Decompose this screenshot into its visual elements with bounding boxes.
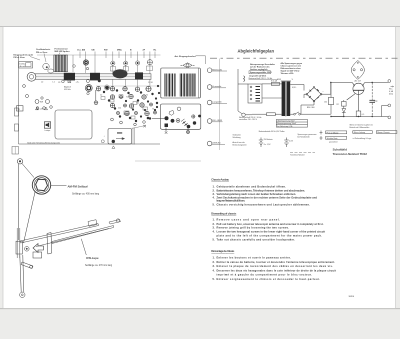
svg-text:Langwelle: Langwelle <box>212 102 222 104</box>
svg-text:Ant. Eingangsbuchse: Ant. Eingangsbuchse <box>175 55 197 58</box>
svg-text:T3: T3 <box>152 109 154 111</box>
svg-text:4.: 4. <box>213 230 215 234</box>
svg-text:2.: 2. <box>213 260 215 264</box>
svg-text:1.: 1. <box>213 185 215 189</box>
arrow marker <box>244 76 245 82</box>
svg-text:Lautspr.: Lautspr. <box>45 129 52 132</box>
bottom rail right <box>331 116 388 118</box>
svg-text:AM-FM Seillauf: AM-FM Seillauf <box>68 184 88 188</box>
TO-3 package outline <box>351 61 364 80</box>
svg-text:Remove cases and open rear pan: Remove cases and open rear panel. <box>217 218 281 222</box>
svg-text:MW-LW Spulen: MW-LW Spulen <box>55 51 71 53</box>
tuning box (Drehko) <box>19 62 33 69</box>
svg-text:Take out chassis carefully and: Take out chassis carefully and unsolder … <box>217 237 296 241</box>
idler pulley <box>17 159 22 164</box>
svg-text:imprimé et à gauche du compart: imprimé et à gauche du compartiment pour… <box>217 273 313 277</box>
dashed separation line <box>210 57 398 59</box>
output terminal - <box>382 104 391 119</box>
dial lamp (eye) <box>181 63 195 68</box>
dial scale window frame <box>161 68 201 98</box>
measurement note box <box>276 120 307 128</box>
coil L1 on rod <box>64 73 75 81</box>
capacitor C1 <box>369 83 377 117</box>
svg-text:Desserrer les deux vis hexagon: Desserrer les deux vis hexagonales dans … <box>217 268 337 272</box>
svg-text:Verbindungsleitung nach Lösen: Verbindungsleitung nach Lösen der beiden… <box>217 192 297 196</box>
svg-text:Gedruckte Schaltung Bestückung: Gedruckte Schaltung Bestückungsseite <box>27 141 60 144</box>
knob Langwelle <box>207 100 227 105</box>
small coil can <box>48 69 54 73</box>
svg-text:2.: 2. <box>213 188 215 192</box>
trace <box>96 85 160 87</box>
svg-text:4.: 4. <box>213 195 215 199</box>
transformer T1 <box>281 81 291 117</box>
wire selector to fuse <box>262 83 270 85</box>
emitter resistor R3 <box>356 111 364 117</box>
svg-text:KW: KW <box>104 50 108 52</box>
dashed note near title <box>290 152 315 154</box>
svg-text:3.: 3. <box>213 226 215 230</box>
svg-text:6 x 1,5V: 6 x 1,5V <box>264 144 271 146</box>
svg-text:Eingangskreisspule: Eingangskreisspule <box>14 54 34 57</box>
svg-text:+: + <box>323 91 324 93</box>
svg-text:C11: C11 <box>136 103 139 105</box>
lower rail <box>20 255 25 297</box>
svg-text:Chassis vorsichtig herausnehme: Chassis vorsichtig herausnehmen und Laut… <box>217 202 311 206</box>
svg-text:KW: KW <box>40 102 43 104</box>
svg-text:4.: 4. <box>213 268 215 272</box>
schematic notes top-left <box>250 63 275 71</box>
svg-text:Trennlinie Netzteil: Trennlinie Netzteil <box>290 154 305 157</box>
rod left end cap <box>27 72 36 81</box>
drive arrow <box>33 244 44 253</box>
svg-text:Pull out battery box, unscrew: Pull out battery box, unscrew telescopic… <box>217 222 324 226</box>
fuse Si1 <box>270 79 282 85</box>
cord pulley to drum <box>22 163 34 177</box>
svg-text:Minus Leitung: Minus Leitung <box>354 131 365 134</box>
voltage selector S1 <box>248 84 262 103</box>
svg-text:Enlever la plaque de raccordem: Enlever la plaque de raccordement des câ… <box>217 264 334 268</box>
FM input coil (striped) <box>54 55 68 72</box>
svg-text:Toleranz ±10%: Toleranz ±10% <box>281 73 294 75</box>
svg-text:Gehäuseteile abnehmen und Bode: Gehäuseteile abnehmen und Bodendeckel öf… <box>217 185 287 189</box>
left-board small parts <box>23 85 53 111</box>
svg-text:2.: 2. <box>213 222 215 226</box>
oscillator coil L3 <box>43 63 49 69</box>
lower lever <box>21 262 33 269</box>
svg-text:C14: C14 <box>118 108 121 110</box>
battery B2 <box>284 138 293 148</box>
bridge rectifier GL1 <box>306 87 322 102</box>
svg-text:Loosen the two hexagonal screw: Loosen the two hexagonal screws in the l… <box>217 230 326 234</box>
svg-text:Abgleichfolgeplan: Abgleichfolgeplan <box>238 48 275 53</box>
wire bridge to top rail <box>301 83 331 115</box>
svg-text:bei Netzbetrieb: bei Netzbetrieb <box>298 136 310 139</box>
knob Kurzwelle <box>207 85 226 90</box>
svg-text:6,3V~: 6,3V~ <box>292 87 296 89</box>
svg-text:FM m. Kern: FM m. Kern <box>14 56 26 59</box>
output terminal + <box>388 80 394 88</box>
connector box edge <box>17 106 24 111</box>
wire to test point <box>95 90 97 101</box>
speaker symbol <box>44 122 51 132</box>
pushbutton unit box <box>152 104 201 129</box>
svg-text:Batteriekasten herausnehmen, T: Batteriekasten herausnehmen, Teleskop-An… <box>217 188 306 192</box>
alignment mark circle-plus <box>186 128 189 134</box>
coil L2 on rod <box>90 73 100 81</box>
svg-text:Seillänge ca. 400 mm lang: Seillänge ca. 400 mm lang <box>72 193 100 195</box>
PCB edge notch 2 <box>15 124 19 131</box>
svg-text:Enlever soigneusement le châss: Enlever soigneusement le châssis et dess… <box>217 277 321 281</box>
svg-text:Plus an Masse: Plus an Masse <box>327 132 339 134</box>
svg-text:Ferritantenne: Ferritantenne <box>55 47 69 50</box>
label KW-Lupe <box>81 239 86 255</box>
svg-text:3.: 3. <box>213 192 215 196</box>
pointer flag <box>47 233 52 255</box>
svg-text:B30 C400: B30 C400 <box>307 107 315 109</box>
zener diode D1 <box>331 100 346 117</box>
svg-text:MWo: MWo <box>117 50 123 52</box>
svg-text:1.: 1. <box>213 218 215 222</box>
svg-text:5.: 5. <box>213 237 215 241</box>
svg-text:Enlever les boutons et ouvrir: Enlever les boutons et ouvrir le panneau… <box>217 255 292 259</box>
PCB board outline <box>37 54 161 56</box>
svg-text:Chassis-Ausbau: Chassis-Ausbau <box>211 178 229 182</box>
bottom rail with fuse <box>252 112 331 116</box>
svg-text:150: 150 <box>324 102 327 104</box>
svg-text:5.: 5. <box>213 202 215 206</box>
dial scale right panel (striped) <box>180 74 195 97</box>
tuning gang dark ellipse <box>113 69 128 78</box>
svg-text:Masse Chassis: Masse Chassis <box>377 132 389 134</box>
svg-text:FM m. Kern: FM m. Kern <box>36 51 48 54</box>
svg-text:Batteriebetrieb 9V 6x1,5V Zel: Batteriebetrieb 9V 6x1,5V Zellen <box>259 130 285 133</box>
svg-text:0,5: 0,5 <box>362 114 364 116</box>
battery compartment <box>101 125 146 148</box>
trimmer row (top, with dark slugs) <box>83 60 152 71</box>
battery B1 <box>259 138 273 148</box>
svg-text:909/4: 909/4 <box>349 296 355 298</box>
cord vertical run <box>18 164 20 240</box>
svg-text:UB: UB <box>92 50 96 52</box>
junction dots <box>330 82 331 83</box>
alignment mark X <box>165 128 168 134</box>
dial drum <box>32 176 50 194</box>
ferrite rod antenna <box>27 69 151 81</box>
svg-text:T1: T1 <box>126 97 128 99</box>
pointer rail assembly left bracket <box>16 228 29 258</box>
wire mains to selector <box>238 69 252 117</box>
faint fold line <box>135 160 201 162</box>
svg-text:9V Batterie: 9V Batterie <box>264 138 273 141</box>
svg-text:C2: C2 <box>100 95 102 97</box>
svg-text:Spannungswähler 220 V: Spannungswähler 220 V <box>250 72 272 74</box>
small bracket under arrow <box>33 252 42 258</box>
svg-text:UKW-Ein: UKW-Ein <box>212 143 221 145</box>
svg-text:Oszillatorkreis: Oszillatorkreis <box>36 48 51 51</box>
svg-text:Schalter Netz: Schalter Netz <box>327 137 338 140</box>
svg-text:lang von Netzanschluß lösen.: lang von Netzanschluß lösen. <box>217 199 246 203</box>
svg-text:Seillänge ca. 270 mm lang: Seillänge ca. 270 mm lang <box>85 265 113 267</box>
scale rod (upper) <box>36 219 121 247</box>
legend bars <box>320 131 397 144</box>
mid-board trimmer grid <box>96 86 158 126</box>
svg-text:Bestückungsseite: Bestückungsseite <box>233 143 247 146</box>
svg-text:1.: 1. <box>213 255 215 259</box>
svg-text:AC 117: AC 117 <box>355 80 362 83</box>
svg-text:bei Belastung 0,1A: bei Belastung 0,1A <box>277 125 293 128</box>
svg-text:Transistor-Netzteil TN12: Transistor-Netzteil TN12 <box>333 152 368 156</box>
svg-text:Gerätes zugänglich: Gerätes zugänglich <box>250 68 268 71</box>
chassis boundary line <box>218 59 220 151</box>
svg-text:Netzanschluß 220 V~ 50 Hz: Netzanschluß 220 V~ 50 Hz <box>249 77 273 80</box>
top rail to transistor <box>331 82 350 84</box>
shaft bracket below board <box>12 147 19 155</box>
knob FM-UKW <box>207 119 222 124</box>
knob UKW-Ein <box>207 141 225 146</box>
transistor Q1 <box>347 83 388 112</box>
svg-text:C1 98: C1 98 <box>148 82 153 84</box>
cord drum to pointer <box>24 192 36 243</box>
svg-text:R2: R2 <box>337 104 339 106</box>
svg-text:3.: 3. <box>213 264 215 268</box>
secondary top wire <box>290 85 304 91</box>
svg-text:Osz. AM: Osz. AM <box>77 49 85 52</box>
svg-text:gezeichnet: gezeichnet <box>329 140 338 143</box>
large opening (speaker cutout) <box>55 110 92 139</box>
coil block right <box>135 72 143 79</box>
svg-text:Démontage du châssis: Démontage du châssis <box>211 249 235 253</box>
svg-text:455 kHz: 455 kHz <box>64 89 71 91</box>
leader lines from top labels <box>30 52 155 88</box>
svg-text:Kurzwelle: Kurzwelle <box>212 85 222 88</box>
dial scale left panel (striped) <box>165 74 176 97</box>
PCB edge notch 1 <box>15 108 19 116</box>
IF transformer core <box>85 85 92 92</box>
svg-text:Retirer la caisse de batterie,: Retirer la caisse de batterie, tourner e… <box>217 260 336 264</box>
svg-text:C3: C3 <box>58 82 60 84</box>
dark core <box>105 86 108 89</box>
svg-text:5.: 5. <box>213 277 215 281</box>
svg-text:(9,4): (9,4) <box>389 94 393 96</box>
svg-text:umstellbar 110 - 240 V: umstellbar 110 - 240 V <box>239 118 258 121</box>
resistor R1 <box>324 83 334 115</box>
svg-text:Betrieb mit 6 Monozellen: Betrieb mit 6 Monozellen <box>350 126 370 129</box>
svg-text:Antrieb: Antrieb <box>20 65 26 68</box>
svg-text:KW-Lupe: KW-Lupe <box>86 256 99 260</box>
svg-text:Dismantling of chassis: Dismantling of chassis <box>211 212 237 216</box>
label AM-FM Seillauf <box>51 185 67 187</box>
svg-text:in Ruhestellung 0-Lage: in Ruhestellung 0-Lage <box>353 137 371 140</box>
svg-text:500µ: 500µ <box>374 100 378 102</box>
test point box 1 <box>68 79 71 82</box>
svg-text:Mittelwelle: Mittelwelle <box>212 68 223 71</box>
svg-text:FM - UKW: FM - UKW <box>212 120 222 122</box>
svg-text:Schaltbild: Schaltbild <box>333 147 348 151</box>
label Eingangskreisspule <box>14 47 197 59</box>
svg-text:plate and to the left of the c: plate and to the left of the compartment… <box>217 233 323 237</box>
svg-text:Schaltung: Schaltung <box>233 136 241 139</box>
svg-text:Remove joining grill by loosen: Remove joining grill by loosening the tw… <box>217 226 290 230</box>
knob Mittelwelle <box>207 68 227 73</box>
pointer carriage bar (lower) <box>20 220 99 243</box>
